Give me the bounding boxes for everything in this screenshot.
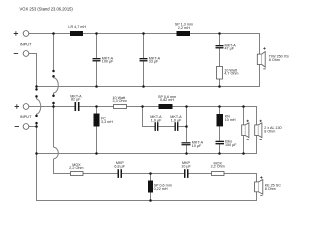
svg-text:33 µF: 33 µF: [149, 60, 159, 64]
svg-text:10 µF: 10 µF: [192, 144, 202, 148]
svg-text:10 µF: 10 µF: [181, 164, 191, 168]
svg-text:0,82 mH: 0,82 mH: [160, 98, 174, 102]
wire C47 branch upper: [219, 34, 221, 46]
inductor L1 LR 4,7 mH: [70, 31, 83, 36]
wire plus rail mid to tweeter: [53, 107, 55, 148]
wire lower minus to rail: [29, 126, 37, 128]
svg-text:3,3 Ohm: 3,3 Ohm: [113, 99, 127, 103]
inductor KN 10 mH: [217, 114, 224, 126]
node mid bus Elko: [218, 152, 221, 155]
wire KE bottom to bus: [256, 192, 258, 201]
wire KN to Elko: [219, 126, 221, 140]
wire plus rail strap to mid wire: [53, 103, 55, 107]
capacitor C1a MKT-A 1,0uF: [155, 122, 159, 131]
terminal upper plus: [14, 31, 18, 35]
wire C47 to R4.7: [219, 49, 221, 67]
strap dot minus rail b: [35, 95, 38, 98]
svg-text:82 µF: 82 µF: [71, 98, 81, 102]
node bus minus rail: [35, 85, 38, 88]
terminal lower plus: [15, 104, 19, 108]
node mid plus rail: [52, 105, 55, 108]
wire bypass left segment: [142, 126, 155, 128]
inductor FC 3,3 mH: [94, 114, 100, 127]
terminal lower minus: [15, 126, 19, 128]
svg-text:47 µF: 47 µF: [225, 47, 235, 51]
wire plus rail arc over mid bus: [54, 147, 59, 158]
wire FC branch lower: [96, 126, 98, 153]
svg-text:INPUT: INPUT: [20, 114, 32, 119]
inductor L2 SP 2,2 mH: [177, 31, 191, 36]
wire tweeter after MOX1: [83, 173, 118, 175]
node mid KN top: [218, 105, 221, 108]
speaker KE 25 SC: [255, 180, 263, 195]
svg-text:INPUT: INPUT: [20, 41, 32, 46]
resistor MOX1 2,2 Ohm: [71, 172, 84, 176]
wire tweeter after MKP10: [189, 173, 212, 175]
wire minus rail strap segment: [36, 96, 38, 99]
strap dot plus rail d: [52, 102, 55, 105]
wire KN branch upper: [219, 107, 221, 114]
strap dot minus rail a: [35, 88, 38, 91]
node tweeter L4 top: [149, 172, 152, 175]
terminal upper minus: [14, 53, 18, 55]
svg-text:3,3 mH: 3,3 mH: [101, 120, 113, 124]
wire C100 branch upper: [96, 34, 98, 59]
node mid bus FC: [95, 152, 98, 155]
strap dot plus rail c: [52, 94, 55, 97]
resistor R2 10 Watt 3,3 Ohm: [114, 105, 127, 109]
capacitor C10 MKT-A 10uF: [182, 142, 191, 145]
node mid bus AL130-1: [242, 152, 245, 155]
capacitor C100 MKT-A 100uF: [93, 58, 101, 61]
wire down to TIW speaker: [259, 34, 261, 55]
svg-text:LR 4,7 mH: LR 4,7 mH: [68, 25, 86, 29]
svg-text:8 Ohm: 8 Ohm: [269, 58, 280, 62]
wire TIW bottom to top bus: [259, 65, 261, 87]
wire C82 to R3.3: [80, 106, 114, 108]
svg-text:1,0 µF: 1,0 µF: [171, 118, 182, 122]
svg-text:0,22 mH: 0,22 mH: [154, 187, 168, 191]
wire upper minus to rail: [29, 53, 37, 55]
inductor L4 SP 0,22 mH: [148, 181, 153, 193]
wire mid plus feed: [29, 106, 75, 108]
svg-text:2,2 mH: 2,2 mH: [178, 26, 190, 30]
wire AL130-1 lower: [243, 136, 245, 154]
svg-text:10 mH: 10 mH: [225, 118, 236, 122]
capacitor C1b MKT-A 1,0uF: [175, 122, 179, 131]
wire top return bus: [37, 86, 261, 88]
node mid FC top: [95, 105, 98, 108]
wire plus rail upper: [53, 34, 55, 72]
wire down to KE speaker: [256, 174, 258, 182]
wire C10 to mid bus: [186, 145, 188, 153]
resistor MOX2 2,2 Ohm: [212, 172, 225, 176]
strap dot plus rail b: [52, 75, 55, 78]
node bus R4.7: [218, 85, 221, 88]
svg-text:4,7 Ohm: 4,7 Ohm: [224, 71, 238, 75]
wire AL130-2 upper: [256, 107, 258, 125]
wire minus rail upper: [36, 54, 38, 90]
node bus C33: [142, 85, 145, 88]
node top C47: [218, 32, 221, 35]
node mid right of L3: [185, 105, 188, 108]
wire plus rail below arc: [53, 93, 55, 96]
svg-text:VOX 253 (Stand 23.06.2015): VOX 253 (Stand 23.06.2015): [20, 6, 74, 11]
svg-text:100 µF: 100 µF: [102, 60, 114, 64]
wire Elko to mid bus: [219, 144, 221, 153]
svg-text:8 Ohm: 8 Ohm: [264, 129, 275, 133]
wire FC branch upper: [96, 107, 98, 114]
wire minus rail arc over mid wire: [37, 99, 41, 114]
wire mid return bus: [37, 153, 258, 155]
node bottom bus L4: [149, 199, 152, 202]
wire AL130-1 upper: [243, 107, 245, 125]
svg-text:2,2 Ohm: 2,2 Ohm: [211, 165, 225, 169]
capacitor MKP 6,8uF: [118, 169, 123, 178]
wire minus rail below arc: [36, 114, 38, 116]
speaker TIW 250 XS: [257, 52, 265, 68]
svg-text:150 µF: 150 µF: [225, 143, 237, 147]
node mid left of L3: [141, 105, 144, 108]
wire node B down right of L0.82: [186, 107, 188, 143]
svg-text:2,2 Ohm: 2,2 Ohm: [69, 166, 83, 170]
wire plus rail arc over top bus: [54, 78, 59, 93]
node bypass C10: [185, 125, 188, 128]
svg-text:8 Ohm: 8 Ohm: [265, 187, 276, 191]
capacitor Elko 150uF: [216, 141, 225, 145]
svg-text:1,0 µF: 1,0 µF: [151, 118, 162, 122]
node top plus rail: [52, 32, 55, 35]
strap dot minus rail d: [35, 122, 38, 125]
wire R4.7 to bus: [219, 79, 221, 87]
wire tweeter feed horizontal: [54, 173, 71, 175]
wire node A down left of L0.82: [142, 107, 144, 128]
wire plus rail strap segment: [53, 76, 55, 77]
node mid AL130-1 top: [242, 105, 245, 108]
wire top main after L1: [83, 33, 260, 35]
capacitor C33 MKT-A 33uF: [140, 58, 148, 61]
capacitor MKP 10uF: [184, 169, 189, 178]
wire bypass right segment: [178, 126, 187, 128]
inductor L3 SP 0,82 mH: [159, 104, 173, 109]
node bus C100: [95, 85, 98, 88]
strap dot minus rail c: [35, 115, 38, 118]
strap dot plus rail a: [52, 70, 55, 73]
wire tweeter after MKP6.8: [122, 173, 184, 175]
wire bypass mid segment: [158, 126, 174, 128]
node top C33: [142, 32, 145, 35]
wire AL130-2 lower: [256, 136, 258, 154]
node minus lower input: [35, 125, 38, 128]
resistor R1 10 Watt 4,7 Ohm: [217, 67, 223, 80]
speaker AL130 no.2: [255, 123, 262, 138]
svg-text:6,8 µF: 6,8 µF: [114, 164, 125, 168]
wire mid main after R3.3: [127, 106, 258, 108]
wire top plus feed: [29, 33, 70, 35]
wire L0.22 branch upper: [150, 174, 152, 181]
wire tweeter after MOX2: [224, 173, 257, 175]
capacitor C82 MKT-A 82uF: [75, 102, 80, 111]
wire C100 branch lower: [96, 61, 98, 86]
wire minus rail lower: [36, 123, 38, 201]
wire L0.22 branch lower: [150, 193, 152, 201]
wire bottom bus: [37, 200, 258, 202]
node minus mid bus: [35, 152, 38, 155]
node top C100: [95, 32, 98, 35]
wire C33 branch upper: [143, 34, 145, 59]
wire C33 branch lower: [143, 61, 145, 86]
speaker AL130 no.1: [242, 123, 249, 138]
capacitor C47 MKT-A 47uF: [216, 45, 224, 48]
node mid bus C10: [185, 152, 188, 155]
wire plus rail to tweeter wire: [53, 159, 55, 174]
